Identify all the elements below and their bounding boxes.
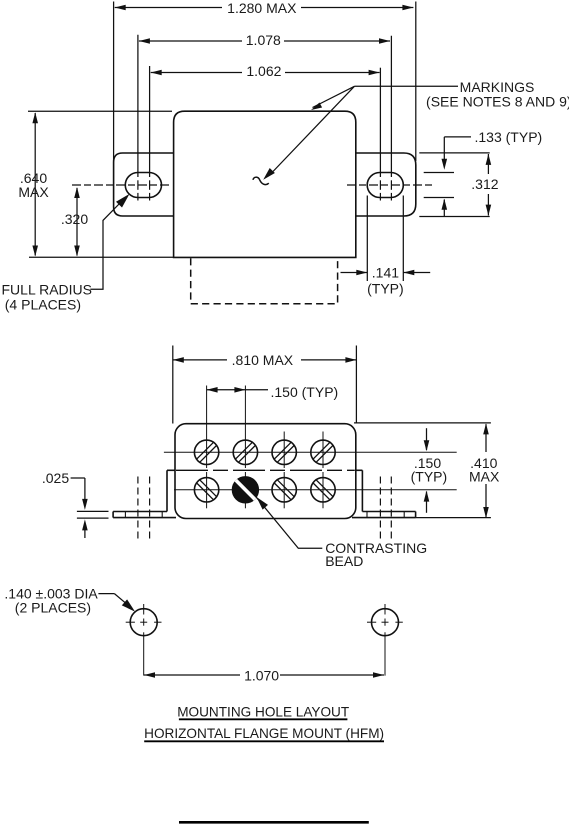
svg-text:1.280 MAX: 1.280 MAX xyxy=(227,0,297,16)
svg-text:1.070: 1.070 xyxy=(244,668,279,684)
svg-text:(4 PLACES): (4 PLACES) xyxy=(5,296,81,312)
svg-text:MOUNTING HOLE LAYOUT: MOUNTING HOLE LAYOUT xyxy=(177,705,349,720)
svg-text:.133 (TYP): .133 (TYP) xyxy=(475,129,543,145)
svg-text:.141: .141 xyxy=(372,265,399,281)
svg-text:MAX: MAX xyxy=(18,184,49,200)
svg-text:MAX: MAX xyxy=(469,468,500,484)
svg-text:BEAD: BEAD xyxy=(325,553,363,569)
svg-text:.150 (TYP): .150 (TYP) xyxy=(271,384,339,400)
svg-text:(TYP): (TYP) xyxy=(367,281,404,297)
svg-text:.320: .320 xyxy=(61,211,88,227)
svg-text:(2 PLACES): (2 PLACES) xyxy=(15,600,91,616)
svg-text:(SEE NOTES 8 AND 9): (SEE NOTES 8 AND 9) xyxy=(426,93,569,109)
svg-text:.810 MAX: .810 MAX xyxy=(232,352,294,368)
svg-text:FULL RADIUS: FULL RADIUS xyxy=(2,282,93,298)
svg-text:(TYP): (TYP) xyxy=(411,468,448,484)
svg-text:1.078: 1.078 xyxy=(246,32,281,48)
svg-text:.025: .025 xyxy=(42,470,69,486)
svg-text:.312: .312 xyxy=(471,176,498,192)
svg-text:1.062: 1.062 xyxy=(246,63,281,79)
svg-text:HORIZONTAL FLANGE MOUNT (HFM): HORIZONTAL FLANGE MOUNT (HFM) xyxy=(144,726,384,741)
